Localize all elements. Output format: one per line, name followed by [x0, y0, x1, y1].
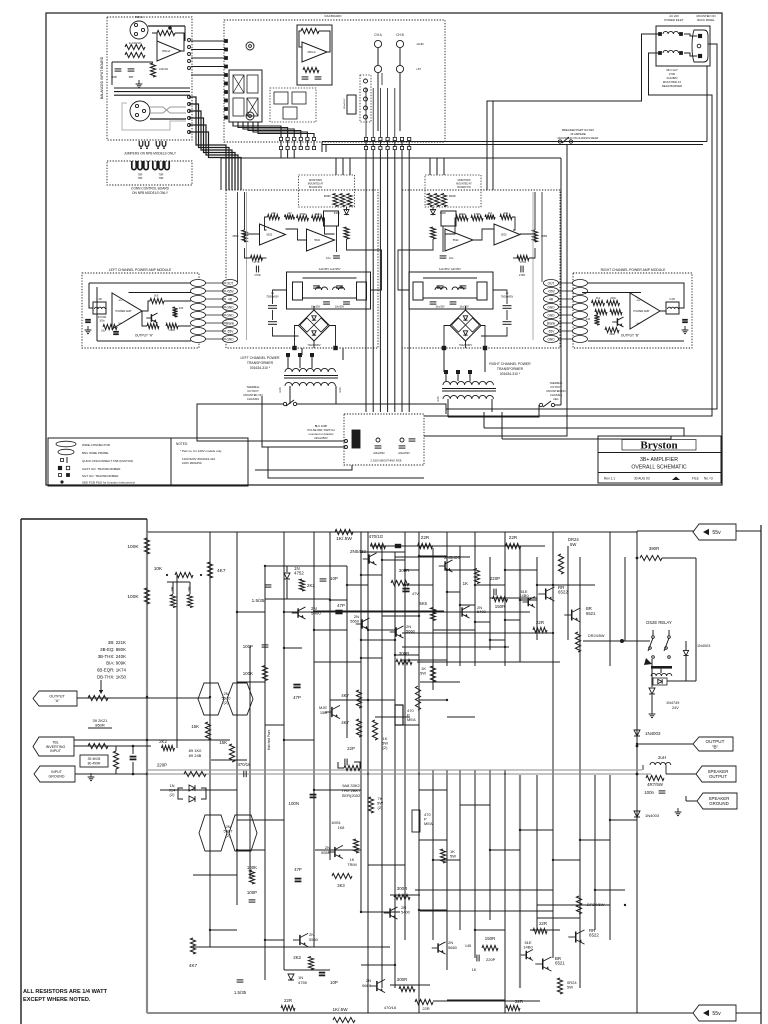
ground balanced	[138, 80, 140, 84]
resistor 1K5 feedback A	[150, 298, 164, 303]
resistor 22R bottom c	[415, 999, 433, 1004]
capacitor 100u driver	[440, 255, 447, 257]
bridge rectifier	[450, 310, 481, 341]
svg-text:100u: 100u	[99, 320, 105, 323]
resistor 22R c	[533, 627, 547, 632]
svg-text:150R: 150R	[495, 604, 506, 609]
XLR connector CH A circle	[130, 21, 148, 39]
wire module interconnect 3	[313, 341, 315, 348]
resistor 1K 5W pair a	[415, 686, 420, 710]
svg-text:220P: 220P	[157, 763, 167, 768]
svg-text:243: 243	[179, 306, 184, 310]
svg-text:4752: 4752	[294, 571, 304, 576]
main board bottom pads row 1 right	[364, 137, 367, 140]
diode 1N4003 relay	[683, 650, 688, 655]
wire module interconnect 2	[398, 239, 433, 290]
wire link 19 y=875	[193, 874, 237, 876]
wire bias to ovals	[178, 325, 191, 327]
resistor 15K b	[229, 744, 234, 762]
svg-text:GROUND: GROUND	[709, 801, 729, 806]
resistor 2K2 r4	[610, 309, 622, 314]
resistor 2K2 upper	[299, 579, 304, 591]
molex pins	[364, 79, 368, 83]
capacitor bank 100u/100V	[347, 95, 356, 114]
transformer pad a	[442, 346, 446, 350]
relay K2 inner b	[292, 92, 306, 104]
title block divider 2	[598, 472, 721, 474]
wire gray module bus	[246, 192, 248, 340]
op-amp section box	[297, 25, 332, 85]
second sheet left border	[20, 519, 22, 1024]
resistor 100K upper	[144, 538, 149, 554]
wire link 36 y=865	[368, 864, 405, 866]
resistor 100K low	[249, 870, 254, 884]
svg-text:10P: 10P	[330, 576, 338, 581]
svg-text:5400: 5400	[477, 609, 487, 614]
svg-text:5660: 5660	[448, 945, 458, 950]
svg-text:Rev 1.1: Rev 1.1	[604, 477, 615, 481]
capacitor 10u/35V d	[460, 285, 467, 287]
diode 1N4003 output b	[634, 811, 640, 817]
svg-text:100K: 100K	[247, 865, 257, 870]
resistor DR24 5W	[558, 554, 563, 574]
matched pair 2N5510	[198, 683, 224, 715]
wire right mains drop a	[560, 158, 562, 405]
thermal breaker CB1	[558, 140, 561, 143]
svg-text:TRANSFORMER: TRANSFORMER	[247, 361, 274, 365]
wire vertical bus 28 x=505	[504, 770, 506, 1013]
legend faston symbol	[61, 459, 64, 462]
regulator RG2	[293, 282, 303, 300]
wire link 8 y=640	[361, 639, 395, 641]
wire link 2 y=546	[467, 545, 545, 547]
monitor dashed box	[425, 175, 481, 207]
capacitor 10u/35V b	[450, 301, 457, 303]
wire jack B down	[399, 48, 401, 65]
wire link 63 y=820	[610, 819, 637, 821]
svg-text:ON NPB MODELS ONLY: ON NPB MODELS ONLY	[132, 191, 169, 195]
svg-text:(2): (2)	[378, 805, 384, 810]
left transformer secondary coil	[285, 382, 335, 386]
svg-text:4K7: 4K7	[189, 963, 198, 968]
wire vertical bus 2 x=177	[176, 575, 178, 748]
svg-text:JUMPERS ON NPB MODELS ONLY: JUMPERS ON NPB MODELS ONLY	[124, 152, 177, 156]
jumper hooks below balanced board	[139, 141, 143, 146]
svg-text:100N: 100N	[289, 801, 300, 806]
resistor 220s r2	[607, 300, 620, 305]
svg-text:5W: 5W	[570, 542, 576, 547]
resistor 1K/5W bottom	[333, 1017, 355, 1022]
svg-text:ALL RESISTORS ARE 1/4 WATT: ALL RESISTORS ARE 1/4 WATT	[23, 989, 108, 995]
wire link 83 y=640	[490, 639, 505, 641]
wire vertical bus 13 x=382	[381, 546, 383, 988]
svg-text:22R: 22R	[539, 921, 547, 926]
resistor 89 1K0	[184, 771, 206, 776]
wire link 62 y=840	[580, 839, 610, 841]
monitor dashed box	[299, 175, 355, 207]
bridge diode b	[466, 318, 480, 332]
wire link 86 y=630	[368, 629, 395, 631]
wire link 71 y=662	[417, 661, 560, 663]
wire link 81 y=605	[460, 604, 475, 606]
wire right module to right amp	[558, 282, 573, 284]
zener 1N4749 24V	[651, 659, 653, 687]
wire link 52 y=850	[237, 849, 265, 851]
flag speaker ground	[697, 793, 737, 809]
capacitor 100P	[115, 68, 122, 70]
svg-text:14B0: 14B0	[519, 593, 529, 598]
wire bundle inside main board	[365, 88, 367, 137]
wire long output run gray	[147, 769, 642, 771]
wire vertical bus 8 x=314	[313, 532, 315, 947]
legend wire connector symbol	[56, 441, 76, 447]
resistor 500R	[391, 580, 409, 585]
transistor BR6521 upper	[571, 609, 573, 620]
svg-text:22R: 22R	[284, 998, 292, 1003]
wire feedback A	[445, 218, 458, 234]
svg-text:MOUNTED ON CHASSIS REAR: MOUNTED ON CHASSIS REAR	[558, 136, 599, 140]
wire vertical bus 34 x=568	[567, 546, 569, 640]
wire link 24 y=970	[284, 969, 330, 971]
wire link 50 y=740	[284, 739, 314, 741]
left power amp module dashed box	[82, 273, 199, 348]
capacitor 100P mid	[262, 644, 269, 646]
svg-text:REC A: REC A	[135, 15, 143, 19]
wire balanced mid	[112, 61, 153, 63]
ground input	[90, 773, 92, 777]
svg-text:GRN: GRN	[339, 387, 342, 393]
left transformer leads	[287, 357, 289, 368]
capacitor 220P input	[130, 756, 137, 758]
svg-text:Matched Pairs: Matched Pairs	[267, 729, 271, 750]
svg-text:470/16: 470/16	[384, 1005, 397, 1010]
capacitor 10u/35V a	[430, 301, 437, 303]
resistor 15K a	[205, 722, 210, 740]
inductor 2uH	[650, 762, 671, 765]
wire vertical bus 33 x=553	[552, 532, 554, 958]
wire link 76 y=575	[361, 574, 382, 576]
resistor 10R	[430, 227, 435, 239]
svg-text:6521: 6521	[586, 611, 596, 616]
svg-text:1N4749: 1N4749	[666, 701, 679, 705]
resistor 2K2 left	[162, 745, 175, 750]
bridge diode b	[314, 318, 328, 332]
wire link 25 y=985	[390, 984, 430, 986]
legend pad symbol	[60, 480, 63, 483]
svg-text:GND: GND	[226, 337, 234, 341]
wire mains rail lower	[322, 144, 703, 146]
wire vertical bus 23 x=475	[474, 532, 476, 666]
svg-text:2N5430: 2N5430	[350, 549, 367, 554]
flag -55v	[693, 1005, 736, 1021]
svg-text:477A: 477A	[520, 260, 526, 264]
svg-text:5550: 5550	[321, 850, 331, 855]
resistor 470R row	[471, 215, 483, 220]
wire vertical bus 31 x=537	[536, 557, 538, 640]
wire link 9 y=660	[401, 659, 447, 661]
wire rail stub to inlet	[706, 66, 708, 142]
AC inlet box	[656, 26, 710, 66]
resistor 10k row	[500, 214, 512, 219]
svg-text:OUTPUT "B": OUTPUT "B"	[621, 334, 639, 338]
wire link 57 y=940	[265, 939, 284, 941]
svg-text:DB-THX: 1K50: DB-THX: 1K50	[97, 675, 127, 680]
svg-text:1.5/35: 1.5/35	[252, 598, 265, 603]
svg-text:5660: 5660	[350, 619, 360, 624]
capacitor 7500u a	[503, 305, 512, 307]
wire link 30 y=598	[490, 597, 537, 599]
jumper sockets bank b	[153, 161, 157, 170]
svg-text:470R: 470R	[299, 212, 305, 216]
wire opamp B out	[245, 234, 260, 242]
svg-text:2K2: 2K2	[307, 583, 315, 588]
svg-text:REAR BURNER: REAR BURNER	[662, 84, 682, 88]
wire vertical bus 9 x=330	[329, 532, 331, 860]
ground amp B	[684, 326, 686, 330]
wire link 73 y=890	[415, 889, 553, 891]
wire vertical bus 38 x=610	[609, 775, 611, 940]
thermal cutout right switch	[539, 403, 542, 406]
svg-text:300R: 300R	[399, 651, 410, 656]
capacitor 10u/35V d	[313, 285, 320, 287]
psu left pads	[345, 440, 348, 443]
relay K1 inner a	[233, 75, 244, 93]
inductor L2	[316, 287, 328, 290]
wire vertical bus 37 x=610	[609, 532, 611, 666]
svg-text:3B: 221K: 3B: 221K	[108, 640, 126, 645]
wire link 3 y=557	[395, 556, 470, 558]
svg-text:55v: 55v	[712, 1011, 721, 1017]
svg-text:3K3: 3K3	[337, 883, 345, 888]
resistor 0R24 5W low	[557, 978, 562, 994]
wire link 17 y=820	[237, 819, 284, 821]
wire right mains drop b	[424, 145, 567, 437]
capacitor 100n speaker	[659, 790, 666, 792]
wire caps chain	[272, 299, 274, 304]
right power amp module dashed box	[573, 273, 692, 348]
wire link 47 y=700	[419, 699, 447, 701]
svg-text:SGT GO. TRANSFORMER: SGT GO. TRANSFORMER	[82, 474, 119, 478]
wire link 28 y=905	[553, 904, 610, 906]
svg-text:RIGHT CHANNEL POWER AMP MODULE: RIGHT CHANNEL POWER AMP MODULE	[601, 268, 666, 272]
flag +55v	[693, 524, 736, 540]
zener 1N4759	[288, 974, 294, 980]
second sheet top border	[21, 518, 147, 520]
wire AC neutral to psu	[424, 53, 712, 416]
wire opamp B out	[520, 234, 535, 242]
wire driver drop a	[432, 207, 434, 211]
svg-text:5532: 5532	[314, 238, 320, 242]
svg-text:10k: 10k	[504, 211, 509, 215]
svg-text:MEA: MEA	[407, 717, 416, 722]
matched pair 2N5387 b	[229, 815, 257, 851]
wire link 37 y=612	[237, 611, 265, 613]
wire mid bundle on balanced board	[114, 87, 190, 89]
wire vertical bus 22 x=460	[459, 770, 461, 930]
wire link 11 y=682	[420, 681, 460, 683]
resistor 150R	[493, 596, 508, 601]
resistor 22R a	[418, 543, 433, 548]
relay K2 inner c	[283, 107, 297, 119]
wire link 33 y=662	[314, 661, 361, 663]
resistor 3K3	[332, 873, 352, 878]
svg-text:15B: 15B	[320, 710, 327, 715]
wire right transformer staircase feed c	[483, 412, 485, 428]
capacitor 22P mid	[344, 759, 346, 766]
wire psu bottom left links	[255, 465, 352, 470]
svg-text:QUICK DISCONNECT TAB (FASTON): QUICK DISCONNECT TAB (FASTON)	[82, 459, 133, 463]
svg-text:BOARD PIN: BOARD PIN	[309, 186, 322, 189]
resistor 243 B	[594, 315, 599, 325]
wire feedback B	[265, 217, 268, 230]
wire bundle balanced to main board	[189, 97, 226, 190]
XLR B pin 2	[135, 113, 138, 116]
regulator RG1	[413, 282, 423, 300]
relay K1 inner c	[233, 98, 244, 116]
wire amp B out run	[660, 310, 666, 312]
svg-text:1K/.5W: 1K/.5W	[336, 536, 352, 542]
svg-text:GND: GND	[547, 337, 555, 341]
svg-text:SER(2002: SER(2002	[342, 793, 361, 798]
svg-text:70R: 70R	[138, 173, 143, 177]
title block box	[598, 436, 721, 483]
wire link 15 y=760	[211, 759, 247, 761]
svg-text:2 2200 SMOOTHING RGE: 2 2200 SMOOTHING RGE	[371, 459, 402, 463]
svg-text:300R: 300R	[397, 977, 408, 982]
wire link 34 y=790	[419, 789, 447, 791]
transistor 2N5660 low	[376, 981, 378, 991]
wire link 39 y=616	[382, 615, 419, 617]
svg-text:3B-THX: 240K: 3B-THX: 240K	[98, 654, 126, 659]
inductor L1	[435, 287, 447, 290]
svg-text:820R: 820R	[449, 194, 456, 198]
relay block K1	[229, 70, 262, 122]
legend signal gnd symbol	[59, 474, 62, 477]
svg-text:* Part no. for 120V models onl: * Part no. for 120V models only	[180, 449, 222, 453]
wire right transformer staircase feed d	[501, 412, 503, 439]
resistor 34R	[170, 595, 175, 608]
main board bottom pads row 1 left	[279, 137, 282, 140]
svg-text:BOARD PIN: BOARD PIN	[457, 186, 470, 189]
wire link 75 y=1001	[433, 1000, 540, 1002]
wire input ground lead	[75, 773, 147, 775]
svg-text:300R: 300R	[397, 886, 408, 891]
svg-text:CHST GO. TRANSFORMER: CHST GO. TRANSFORMER	[82, 467, 121, 471]
wire mains branch b	[492, 101, 494, 190]
svg-text:100n: 100n	[644, 790, 654, 795]
wire amp A top rail	[129, 292, 191, 295]
wire speaker ground lead	[686, 800, 697, 802]
svg-text:220s: 220s	[169, 329, 175, 332]
relay K1 cross b	[247, 98, 258, 116]
svg-text:5532: 5532	[453, 238, 459, 242]
wire AC live to mains	[487, 34, 658, 190]
svg-text:4R: 4R	[228, 297, 233, 301]
regulator RG2	[477, 282, 487, 300]
wire left pads drop	[280, 150, 282, 158]
capacitor 470/1G coupling	[395, 544, 401, 546]
wire link 4 y=552	[361, 551, 405, 553]
wire link 88 y=585	[347, 584, 368, 586]
phono jack 2	[246, 112, 254, 120]
wire left amp to module	[205, 282, 226, 284]
wire amp A input run	[89, 283, 93, 308]
svg-text:220u/250V: 220u/250V	[373, 452, 385, 455]
resistor 100K lower	[144, 588, 149, 604]
svg-text:-55V: -55V	[548, 329, 556, 333]
wire link 53 y=790	[314, 789, 361, 791]
wire amp B bottom rail	[588, 340, 684, 342]
svg-text:4E84: 4E84	[459, 212, 466, 216]
resistor 820R	[333, 194, 338, 207]
conn control board dashed box	[107, 161, 192, 185]
wire vertical bus 20 x=447	[446, 770, 448, 970]
wire link 45 y=700	[368, 699, 395, 701]
svg-text:TRIM: TRIM	[347, 863, 356, 867]
wire link 41 y=570	[447, 569, 475, 571]
wire jack feed a	[381, 73, 383, 85]
title block divider 1	[598, 452, 721, 454]
op-amp U1 balanced	[157, 41, 181, 61]
svg-text:5W: 5W	[450, 854, 456, 859]
second sheet right border	[760, 525, 762, 1024]
wire link 59 y=905	[537, 904, 568, 906]
right transformer core	[442, 388, 496, 390]
wire feedback B	[512, 217, 515, 230]
svg-text:22R: 22R	[536, 620, 544, 625]
svg-text:1uF/35V 1uF/35V: 1uF/35V 1uF/35V	[319, 267, 341, 271]
svg-text:+55V: +55V	[547, 289, 555, 293]
svg-text:5K5: 5K5	[420, 601, 428, 606]
svg-text:2N5400: 2N5400	[444, 555, 461, 560]
svg-text:4K7: 4K7	[341, 693, 349, 698]
resistor 455R	[242, 230, 247, 242]
svg-text:47P: 47P	[294, 867, 302, 872]
wire link 48 y=717	[447, 716, 475, 718]
svg-text:TRANSFORMER: TRANSFORMER	[497, 367, 524, 371]
left transformer core	[284, 375, 338, 377]
svg-text:4K7: 4K7	[341, 720, 349, 725]
svg-text:2EC: 2EC	[553, 397, 558, 401]
transformer pad a	[334, 346, 338, 350]
svg-text:39 4K05: 39 4K05	[88, 757, 101, 761]
resistor 22R b	[506, 543, 521, 548]
wire output lead	[637, 743, 693, 745]
wire contact feed	[637, 640, 650, 642]
wire link 79 y=556	[419, 555, 447, 557]
svg-text:100K: 100K	[127, 594, 139, 600]
wire link 35 y=840	[419, 839, 447, 841]
input coil 3.3R block	[93, 302, 106, 314]
transformer pad b	[483, 346, 487, 350]
svg-text:(2): (2)	[383, 745, 389, 750]
svg-text:70R: 70R	[138, 176, 143, 180]
resistor inverting 4K	[88, 743, 108, 748]
svg-text:89 24B: 89 24B	[189, 753, 202, 758]
svg-text:14B0: 14B0	[523, 945, 533, 950]
wire link 29 y=612	[460, 611, 520, 613]
capacitor 470P MEA b	[412, 810, 420, 832]
resistor 300R low right	[394, 894, 410, 899]
svg-text:100P: 100P	[247, 890, 257, 895]
wire link 58 y=930	[210, 929, 237, 931]
resistor 455R	[532, 230, 537, 242]
capacitor 220P low	[476, 955, 478, 962]
wire xlr crossover a	[150, 107, 186, 113]
svg-text:243: 243	[586, 317, 591, 321]
svg-text:LEFT CHANNEL POWER: LEFT CHANNEL POWER	[241, 356, 281, 360]
svg-text:300R: 300R	[399, 568, 410, 573]
